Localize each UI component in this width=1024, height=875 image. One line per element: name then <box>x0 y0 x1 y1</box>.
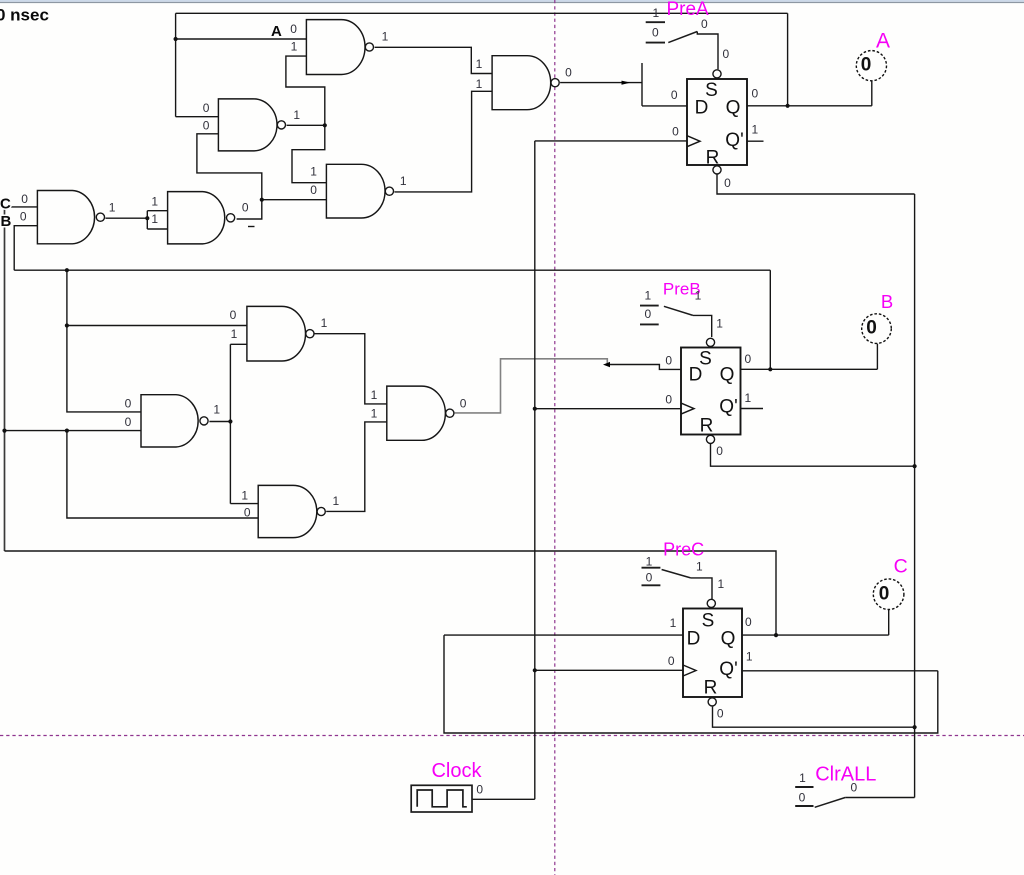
svg-text:1: 1 <box>752 122 759 136</box>
wire C vertical <box>4 207 6 551</box>
svg-text:0: 0 <box>665 393 672 407</box>
svg-text:1: 1 <box>151 212 158 226</box>
svg-text:0: 0 <box>724 176 731 190</box>
wire B net <box>14 269 770 271</box>
svg-text:1: 1 <box>646 554 653 568</box>
flip-flop U13 (C) <box>683 609 742 698</box>
svg-text:1: 1 <box>371 388 378 402</box>
wire QC output <box>742 634 889 636</box>
wire S FF B <box>693 315 712 337</box>
wire U8 to U7 in2 and U9 in1 <box>230 344 258 503</box>
svg-text:Q: Q <box>720 365 735 386</box>
svg-text:0: 0 <box>125 415 132 429</box>
svg-text:ClrALL: ClrALL <box>815 763 876 785</box>
wire R FF B <box>711 443 915 466</box>
direction arrow on D wire FF B <box>603 362 610 367</box>
wire QA top net <box>176 12 788 14</box>
svg-text:1: 1 <box>310 165 317 179</box>
junction clock / FF C clk tap <box>533 668 537 672</box>
svg-text:0: 0 <box>290 22 297 36</box>
svg-text:1: 1 <box>717 577 724 591</box>
svg-text:1: 1 <box>746 650 753 664</box>
wire clock to FF B <box>535 408 681 410</box>
wire U1 out to U2 in1 <box>375 47 493 73</box>
U11 (A) S bubble <box>713 70 721 78</box>
junction C net / U9 in2 tap <box>65 429 69 433</box>
stray dash near U6 output <box>248 226 255 228</box>
svg-text:1: 1 <box>231 327 238 341</box>
svg-text:1: 1 <box>151 195 158 209</box>
svg-text:0: 0 <box>460 396 467 410</box>
U12 (B) S bubble <box>706 338 714 346</box>
wire NAND3 output <box>287 124 325 126</box>
svg-text:R: R <box>704 678 718 699</box>
svg-text:S: S <box>702 611 715 632</box>
wire U4 out to U2 in2 <box>394 91 492 192</box>
wire clock vertical <box>534 141 536 799</box>
svg-text:0: 0 <box>861 55 872 76</box>
svg-text:0: 0 <box>799 791 806 805</box>
nand gate U4 <box>326 164 385 218</box>
svg-text:0: 0 <box>716 444 723 458</box>
svg-text:1: 1 <box>696 559 703 573</box>
wire ClrALL horizontal <box>845 797 914 799</box>
wire C input <box>5 206 38 208</box>
svg-text:1: 1 <box>745 391 752 405</box>
wire ClrALL vertical <box>914 194 916 798</box>
wire D input FF A <box>642 63 687 106</box>
wire QC' to D FF C <box>444 635 938 733</box>
wire QB' stub <box>741 408 764 410</box>
svg-text:0: 0 <box>20 210 27 224</box>
wire probe B stem <box>876 344 878 370</box>
wire NAND3 to U4 in1 <box>292 125 326 182</box>
svg-text:0: 0 <box>476 783 483 797</box>
svg-text:0: 0 <box>745 352 752 366</box>
switch PreA <box>646 22 665 42</box>
svg-text:0: 0 <box>646 571 653 585</box>
U13 (C) clock triangle <box>683 665 696 676</box>
svg-text:0: 0 <box>244 506 251 520</box>
svg-text:1: 1 <box>670 616 677 630</box>
wire QB to B net <box>769 270 771 369</box>
svg-text:1: 1 <box>293 108 300 122</box>
wire S FF A <box>697 32 718 70</box>
wire U6 out to NAND3 in2 <box>197 134 262 219</box>
flip-flop U12 (B) <box>681 348 741 435</box>
clock generator <box>411 785 472 812</box>
nand gate U6 <box>168 192 225 244</box>
nand gate U1 <box>306 20 365 75</box>
wire U5 out <box>105 217 147 219</box>
svg-text:0: 0 <box>879 584 890 605</box>
wire QA right vertical <box>787 13 789 106</box>
U11 (A) clock triangle <box>687 136 700 147</box>
svg-text:0: 0 <box>866 318 877 339</box>
wire QA left vertical <box>175 13 177 116</box>
wire C net long <box>5 551 777 635</box>
svg-text:D: D <box>689 365 703 386</box>
wire B to U8 in1 <box>67 270 141 412</box>
svg-text:0: 0 <box>745 615 752 629</box>
wire U9 out to U10 in2 <box>326 422 387 512</box>
svg-text:PreC: PreC <box>663 539 704 559</box>
junction B net / U7 in1 tap <box>65 323 69 327</box>
wire R FF A <box>717 174 915 194</box>
wire S FF C <box>691 578 712 600</box>
svg-text:Q': Q' <box>719 659 737 680</box>
wire U6 input junction <box>147 211 167 229</box>
junction QA wire node <box>786 104 790 108</box>
svg-text:Q: Q <box>726 98 741 119</box>
svg-text:0: 0 <box>752 87 759 101</box>
svg-text:0: 0 <box>310 183 317 197</box>
U12 (B) clock triangle <box>681 403 694 414</box>
svg-text:B: B <box>881 291 893 312</box>
svg-text:0: 0 <box>230 308 237 322</box>
svg-text:0: 0 <box>717 707 724 721</box>
junction U8 output node <box>228 419 232 423</box>
wire U10 out to D FF B a <box>455 359 608 413</box>
wire U6 out to U4 in2 <box>262 199 327 201</box>
wire U2 out <box>560 82 642 84</box>
svg-text:1: 1 <box>213 402 220 416</box>
wire C to U9 in2 <box>67 431 258 518</box>
svg-text:R: R <box>706 148 720 169</box>
svg-text:0: 0 <box>565 66 572 80</box>
svg-text:1: 1 <box>799 771 806 785</box>
svg-text:1: 1 <box>109 201 116 215</box>
nand gate U9 <box>258 485 317 537</box>
wire U7 out to U10 in1 <box>314 334 387 404</box>
svg-text:1: 1 <box>653 6 660 20</box>
svg-text:1: 1 <box>333 494 340 508</box>
svg-text:0: 0 <box>850 781 857 795</box>
svg-text:1: 1 <box>716 317 723 331</box>
wire clock to FF A <box>535 140 687 142</box>
svg-text:B: B <box>1 213 12 230</box>
wire R FF C <box>713 707 915 728</box>
wire A input <box>176 38 307 40</box>
probe A <box>856 51 886 81</box>
wire clock output <box>472 798 535 800</box>
svg-text:0: 0 <box>672 124 679 138</box>
U11 (A) R bubble <box>713 166 721 174</box>
wire QC' output <box>742 670 938 672</box>
wire U1 in2 feedback <box>286 56 325 125</box>
svg-text:C: C <box>0 196 11 213</box>
wire QA' stub <box>747 140 764 142</box>
svg-text:1: 1 <box>321 316 328 330</box>
svg-text:1: 1 <box>371 406 378 420</box>
svg-text:1: 1 <box>400 174 407 188</box>
wire D input FF C <box>444 634 683 636</box>
U13 (C) R bubble <box>708 698 716 706</box>
switch ClrALL <box>795 787 813 806</box>
svg-text:1: 1 <box>241 488 248 502</box>
svg-text:1: 1 <box>644 288 651 302</box>
wire probe A stem <box>871 81 873 106</box>
probe B <box>862 314 892 344</box>
wire U8 out <box>209 421 230 423</box>
svg-text:1: 1 <box>476 57 483 71</box>
svg-text:D: D <box>695 98 709 119</box>
wire B to U7 in1 <box>67 325 247 327</box>
svg-text:0: 0 <box>203 118 210 132</box>
nand gate U7 <box>247 306 306 361</box>
U12 (B) R bubble <box>706 435 714 443</box>
svg-text:D: D <box>687 629 701 650</box>
svg-text:0: 0 <box>21 192 28 206</box>
junction clock / FF B clk tap <box>533 407 537 411</box>
junction B net / vertical tap <box>65 268 69 272</box>
svg-text:Q': Q' <box>725 130 743 151</box>
junction QB wire node <box>768 367 772 371</box>
junction QC wire node <box>774 633 778 637</box>
svg-text:Q': Q' <box>719 397 737 418</box>
nand gate U10 <box>387 386 446 440</box>
svg-text:0: 0 <box>701 17 708 31</box>
svg-text:0: 0 <box>203 101 210 115</box>
svg-text:0: 0 <box>125 396 132 410</box>
svg-text:A: A <box>876 30 890 53</box>
wire U10 out to D FF B b <box>607 365 681 370</box>
junction U3 output node <box>323 123 327 127</box>
svg-text:1: 1 <box>695 288 702 302</box>
wire QA output <box>747 105 872 107</box>
svg-text:A: A <box>271 23 282 40</box>
svg-text:0: 0 <box>644 307 651 321</box>
wire B input <box>14 226 37 271</box>
junction U6 input node <box>145 216 149 220</box>
svg-text:0: 0 <box>722 47 729 61</box>
switch PreC <box>642 568 661 586</box>
wire NAND3 in1 <box>176 116 219 118</box>
wire QB output <box>741 368 878 370</box>
wire probe C stem <box>888 610 890 636</box>
junction ClrALL / FF B R tap <box>913 464 917 468</box>
junction QA net / A input tap <box>174 37 178 41</box>
nand gate U5 <box>37 191 94 244</box>
svg-text:Q: Q <box>721 629 736 650</box>
page break horizontal (dashed) <box>0 735 1024 737</box>
junction ClrALL / FF C R tap <box>913 725 917 729</box>
top toolbar strip <box>0 0 1024 2</box>
svg-text:C: C <box>894 556 908 578</box>
direction arrow on U2 output wire <box>622 81 631 85</box>
flip-flop U11 (A) <box>687 79 747 165</box>
svg-text:1: 1 <box>291 40 298 54</box>
svg-text:Clock: Clock <box>431 760 482 782</box>
probe C <box>873 579 904 610</box>
switch PreB <box>640 306 659 325</box>
svg-text:1: 1 <box>382 29 389 43</box>
wire C to U8 in2 <box>5 430 142 432</box>
svg-text:0: 0 <box>671 88 678 102</box>
svg-text:0: 0 <box>665 354 672 368</box>
nand gate U8 <box>141 395 198 447</box>
junction U6 output / U4 in2 tap <box>260 198 264 202</box>
svg-text:0: 0 <box>652 25 659 39</box>
U13 (C) S bubble <box>707 599 715 607</box>
page break vertical (dashed) <box>554 0 556 875</box>
nand gate U3 <box>218 99 277 151</box>
junction C vertical / U8 in2 tap <box>2 429 6 433</box>
wire clock to FF C <box>535 669 683 671</box>
svg-text:R: R <box>700 416 714 437</box>
svg-text:1: 1 <box>476 77 483 91</box>
svg-text:0: 0 <box>668 654 675 668</box>
nand gate U2 <box>492 56 551 110</box>
svg-text:0: 0 <box>242 200 249 214</box>
svg-text:0 nsec: 0 nsec <box>0 6 49 25</box>
